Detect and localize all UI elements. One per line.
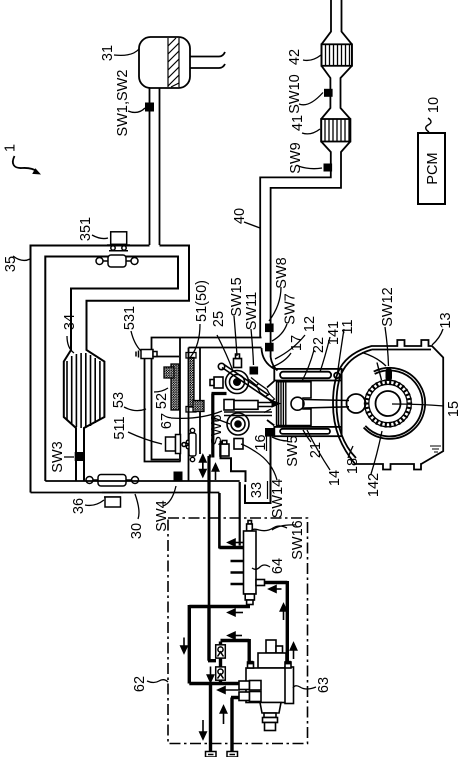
svg-text:SW5: SW5 (285, 435, 301, 466)
svg-text:35: 35 (3, 256, 19, 272)
svg-text:33: 33 (249, 482, 265, 498)
svg-text:15: 15 (446, 401, 462, 417)
svg-text:41: 41 (290, 115, 306, 131)
svg-text:34: 34 (62, 314, 78, 330)
svg-text:531: 531 (122, 306, 138, 330)
svg-text:52: 52 (154, 393, 170, 409)
svg-text:21: 21 (308, 442, 324, 458)
svg-text:SW14: SW14 (270, 479, 286, 519)
svg-text:SW16: SW16 (290, 520, 306, 560)
svg-text:1: 1 (3, 144, 19, 152)
svg-text:12: 12 (302, 316, 318, 332)
svg-text:SW11: SW11 (244, 292, 260, 330)
svg-text:53: 53 (111, 392, 127, 408)
svg-text:51(50): 51(50) (194, 280, 210, 322)
svg-text:10: 10 (426, 97, 442, 113)
svg-text:SW10: SW10 (287, 74, 303, 114)
svg-text:18: 18 (345, 458, 361, 474)
svg-text:62: 62 (132, 676, 148, 692)
svg-text:SW6: SW6 (209, 414, 225, 445)
svg-text:17: 17 (289, 335, 305, 351)
svg-text:511: 511 (112, 416, 128, 439)
svg-text:25: 25 (211, 311, 227, 327)
svg-text:63: 63 (316, 677, 332, 693)
svg-text:13: 13 (438, 312, 454, 328)
svg-text:30: 30 (129, 523, 145, 539)
svg-text:42: 42 (287, 49, 303, 65)
svg-text:SW7: SW7 (283, 293, 299, 324)
svg-text:11: 11 (340, 319, 356, 334)
svg-text:SW8: SW8 (274, 257, 290, 288)
svg-text:SW12: SW12 (380, 287, 396, 327)
svg-text:36: 36 (71, 498, 87, 514)
svg-text:SW15: SW15 (229, 277, 245, 317)
svg-text:40: 40 (232, 208, 248, 224)
svg-text:22: 22 (311, 337, 327, 353)
svg-text:351: 351 (78, 217, 94, 241)
svg-text:14: 14 (327, 470, 343, 486)
svg-text:142: 142 (366, 473, 382, 497)
svg-text:31: 31 (100, 45, 116, 61)
svg-text:67: 67 (159, 413, 175, 429)
svg-text:SW3: SW3 (50, 441, 66, 472)
svg-text:64: 64 (270, 558, 286, 574)
svg-text:SW1,SW2: SW1,SW2 (115, 70, 131, 137)
svg-text:SW4: SW4 (154, 500, 170, 531)
svg-text:SW9: SW9 (288, 142, 304, 173)
svg-text:PCM: PCM (425, 152, 441, 184)
